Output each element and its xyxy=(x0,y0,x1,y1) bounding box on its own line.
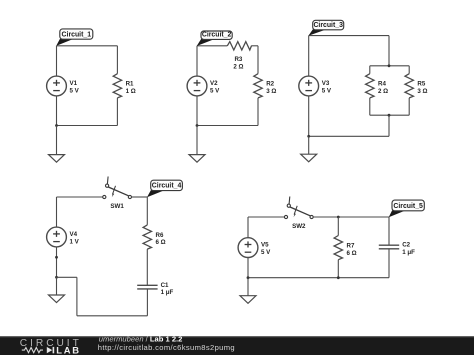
label Circuit_3 xyxy=(308,20,343,36)
resistor R1 1ohm xyxy=(113,74,136,98)
resistor R3 2ohm xyxy=(227,42,251,71)
wire R5 top lead xyxy=(408,66,410,74)
wire R1 bottom lead xyxy=(116,98,118,126)
svg-text:Circuit_2: Circuit_2 xyxy=(202,32,232,39)
wire C2 bottom lead xyxy=(388,249,390,278)
wire parallel stub down xyxy=(388,115,390,136)
node junction parallel top xyxy=(388,64,391,67)
svg-text:Circuit_3: Circuit_3 xyxy=(313,22,343,29)
CircuitLab logo play icon xyxy=(47,347,54,353)
wire top circuit1 xyxy=(57,45,118,47)
wire bottom circuit5 xyxy=(248,277,389,279)
wire R2 top lead xyxy=(257,46,259,74)
ground circuit4 xyxy=(49,295,65,303)
wire V2 bottom lead xyxy=(196,96,198,126)
wire V5 top lead xyxy=(247,217,249,238)
footer bar xyxy=(0,336,474,355)
voltage source V4 1V xyxy=(47,227,80,247)
wire V4 bottom lead xyxy=(56,247,58,277)
wire parallel bottom bar xyxy=(370,114,409,116)
voltage source V5 5V xyxy=(238,238,271,258)
wire branch down circuit4 xyxy=(76,277,78,316)
wire R7 top lead xyxy=(337,217,339,236)
svg-text:3 Ω: 3 Ω xyxy=(266,88,276,95)
wire bottom circuit1 xyxy=(57,125,118,127)
ground circuit5 xyxy=(240,296,256,304)
wire to ground circuit4 xyxy=(56,277,58,295)
voltage source V2 5V xyxy=(187,76,220,96)
ground circuit3 xyxy=(301,154,317,162)
node junction circuit2 bottom xyxy=(196,124,199,127)
wire V2 top lead xyxy=(196,46,198,76)
capacitor C2 1uF xyxy=(379,242,415,256)
svg-text:6 Ω: 6 Ω xyxy=(156,239,166,246)
svg-text:3 Ω: 3 Ω xyxy=(417,88,427,95)
svg-text:R3: R3 xyxy=(234,56,242,63)
wire R6 top lead xyxy=(146,197,148,225)
svg-text:5 V: 5 V xyxy=(322,87,332,94)
node junction circuit4 branch xyxy=(55,276,58,279)
svg-text:Circuit_1: Circuit_1 xyxy=(62,31,92,38)
wire top-right circuit2 xyxy=(251,45,258,47)
label Circuit_2 xyxy=(197,31,233,46)
wire branch right circuit4 xyxy=(57,276,77,278)
resistor R4 2ohm xyxy=(366,74,389,98)
wire V3 bottom lead xyxy=(308,96,310,137)
svg-text:R5: R5 xyxy=(417,81,425,88)
ground circuit1 xyxy=(49,155,65,163)
wire R1 top lead xyxy=(116,46,118,74)
svg-text:1 μF: 1 μF xyxy=(161,289,174,296)
wire to ground circuit3 xyxy=(308,136,310,154)
label Circuit_4 xyxy=(147,180,182,197)
svg-text:SW1: SW1 xyxy=(110,203,124,210)
CircuitLab logo waveform xyxy=(22,348,43,353)
switch SW1 xyxy=(103,177,132,211)
label Circuit_5 xyxy=(389,200,425,217)
svg-text:C2: C2 xyxy=(402,242,410,249)
wire V4-to-SW1 xyxy=(57,196,103,198)
resistor R2 3ohm xyxy=(254,74,277,98)
svg-text:V2: V2 xyxy=(210,80,218,87)
wire to ground circuit5 xyxy=(247,278,249,296)
svg-text:SW2: SW2 xyxy=(292,223,306,230)
svg-text:Circuit_4: Circuit_4 xyxy=(152,183,182,190)
wire R6-to-C1 xyxy=(146,249,148,285)
wire top circuit3 xyxy=(309,35,389,37)
resistor R7 6ohm xyxy=(334,236,357,260)
capacitor C1 1uF xyxy=(137,282,173,296)
wire R4 bottom lead xyxy=(369,98,371,115)
wire R4 top lead xyxy=(369,66,371,74)
wire bottom circuit2 xyxy=(197,125,258,127)
node junction circuit3 bottom xyxy=(307,135,310,138)
svg-text:1 μF: 1 μF xyxy=(402,249,415,256)
resistor R6 6ohm xyxy=(143,225,166,249)
wire V5 bottom lead xyxy=(247,257,249,277)
svg-text:1 Ω: 1 Ω xyxy=(126,88,136,95)
svg-text:R4: R4 xyxy=(378,81,386,88)
svg-text:6 Ω: 6 Ω xyxy=(347,250,357,257)
wire V5-to-SW2 xyxy=(248,216,284,218)
switch SW2 xyxy=(284,197,313,231)
wire to ground circuit2 xyxy=(196,126,198,155)
svg-text:1 V: 1 V xyxy=(70,238,80,245)
ground circuit2 xyxy=(189,155,205,163)
svg-text:5 V: 5 V xyxy=(261,249,271,256)
wire to ground circuit1 xyxy=(56,126,58,155)
node junction circuit5 V5 bottom xyxy=(247,276,250,279)
svg-text:http://circuitlab.com/c6ksum8s: http://circuitlab.com/c6ksum8s2pumg xyxy=(98,343,235,352)
node junction circuit5 R7 bottom xyxy=(337,276,340,279)
wire top-left circuit2 xyxy=(197,45,227,47)
wire R7 bottom lead xyxy=(337,260,339,278)
svg-text:R6: R6 xyxy=(156,232,164,239)
voltage source V1 5V xyxy=(47,76,80,96)
node junction circuit1 bottom xyxy=(55,124,58,127)
wire parallel top bar xyxy=(370,65,409,67)
wire C2 top lead xyxy=(388,217,390,245)
svg-text:Circuit_5: Circuit_5 xyxy=(393,203,423,210)
wire V4 top lead xyxy=(56,197,58,227)
svg-text:R2: R2 xyxy=(266,81,274,88)
wire V1 top lead xyxy=(56,46,58,76)
wire SW1-to-corner xyxy=(132,196,148,198)
wire C1 bottom lead xyxy=(146,289,148,316)
svg-text:V1: V1 xyxy=(70,80,78,87)
svg-text:LAB: LAB xyxy=(56,345,81,355)
svg-text:C1: C1 xyxy=(161,282,169,289)
wire R5 bottom lead xyxy=(408,98,410,115)
wire V1 bottom lead xyxy=(56,96,58,126)
wire bottom circuit3 xyxy=(309,135,389,137)
wire bottom circuit4 xyxy=(77,315,147,317)
svg-text:5 V: 5 V xyxy=(210,87,220,94)
svg-text:2 Ω: 2 Ω xyxy=(233,63,243,70)
wire down to parallel top xyxy=(388,36,390,66)
voltage source V3 5V xyxy=(299,76,332,96)
svg-text:5 V: 5 V xyxy=(70,87,80,94)
label Circuit_1 xyxy=(56,29,93,46)
node junction parallel bottom xyxy=(388,114,391,117)
svg-text:2 Ω: 2 Ω xyxy=(378,88,388,95)
wire V3 top lead xyxy=(308,36,310,77)
svg-text:R1: R1 xyxy=(126,81,134,88)
svg-text:V4: V4 xyxy=(70,231,78,238)
node junction V4 bottom wire xyxy=(55,256,58,259)
node junction R7 top xyxy=(337,216,340,219)
wire R2 bottom lead xyxy=(257,98,259,126)
wire SW2-to-corner xyxy=(313,216,389,218)
resistor R5 3ohm xyxy=(405,74,428,98)
svg-text:V3: V3 xyxy=(322,80,330,87)
svg-text:R7: R7 xyxy=(347,243,355,250)
svg-text:V5: V5 xyxy=(261,242,269,249)
